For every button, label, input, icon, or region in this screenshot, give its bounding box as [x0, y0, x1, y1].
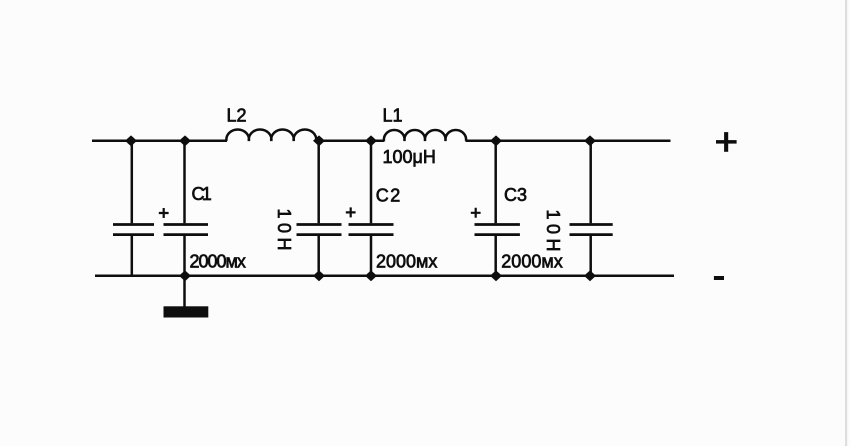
svg-text:C1: C1: [192, 184, 212, 204]
svg-text:C3: C3: [504, 185, 527, 205]
svg-text:10Н: 10Н: [543, 210, 563, 257]
svg-text:L1: L1: [383, 105, 403, 125]
svg-text:C2: C2: [376, 186, 402, 206]
svg-text:100μH: 100μH: [383, 147, 436, 167]
svg-text:2000мх: 2000мх: [190, 252, 246, 272]
svg-text:10Н: 10Н: [274, 209, 294, 256]
svg-text:2000мх: 2000мх: [376, 252, 437, 272]
svg-text:L2: L2: [227, 105, 247, 125]
